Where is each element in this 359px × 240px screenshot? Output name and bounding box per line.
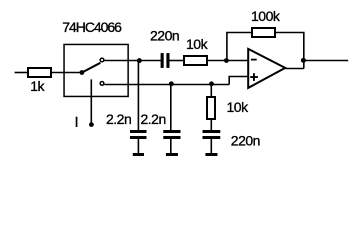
svg-text:220n: 220n [231, 132, 260, 148]
svg-text:10k: 10k [186, 36, 209, 52]
svg-text:1k: 1k [30, 78, 45, 94]
svg-text:74HC4066: 74HC4066 [62, 19, 122, 35]
svg-text:10k: 10k [227, 99, 250, 115]
svg-text:2.2n: 2.2n [106, 111, 131, 127]
svg-text:220n: 220n [150, 27, 179, 43]
svg-text:100k: 100k [251, 8, 281, 24]
svg-text:2.2n: 2.2n [141, 111, 166, 127]
